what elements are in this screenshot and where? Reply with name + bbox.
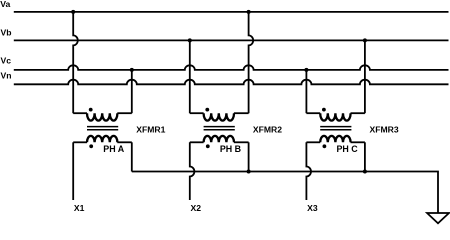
- junction dot neutral wire / XFMR3: [363, 170, 367, 174]
- XFMR2 primary right vertical (x=248.6): [249, 12, 254, 113]
- junction dot Vc / XFMR1: [130, 68, 134, 72]
- bus Vn (hops over 6 verticals): [14, 80, 449, 85]
- XFMR2 core: [204, 127, 235, 130]
- XFMR1 primary winding wire: [73, 112, 87, 114]
- svg-text:Vn: Vn: [1, 70, 12, 80]
- XFMR3 secondary coil: [320, 136, 350, 142]
- XFMR3 secondary winding wire: [306, 141, 320, 143]
- XFMR3 secondary polarity dot: [323, 144, 327, 148]
- XFMR1 secondary winding wire: [73, 141, 87, 143]
- XFMR1 primary coil: [87, 113, 117, 120]
- svg-text:X1: X1: [74, 203, 85, 213]
- XFMR1 primary right vertical (x=131.8): [131, 70, 133, 113]
- XFMR2 primary coil: [204, 113, 234, 120]
- svg-text:Va: Va: [0, 0, 10, 9]
- XFMR2 primary polarity dot: [205, 108, 209, 112]
- XFMR1 secondary left vertical to X1 terminal: [72, 142, 74, 200]
- svg-text:XFMR3: XFMR3: [370, 124, 399, 134]
- bus Vb: [14, 39, 449, 41]
- XFMR2 primary left vertical (from bus, x=189.8): [189, 40, 191, 113]
- svg-text:Vc: Vc: [1, 56, 12, 66]
- svg-text:Vb: Vb: [1, 27, 12, 37]
- XFMR3 secondary left vertical to X3 terminal: [306, 142, 311, 200]
- svg-text:XFMR2: XFMR2: [253, 124, 282, 134]
- XFMR1 secondary polarity dot: [89, 144, 93, 148]
- junction dot Va / XFMR2: [247, 10, 251, 14]
- junction dot neutral wire / XFMR2: [247, 170, 251, 174]
- XFMR3 primary right vertical (x=364.9): [364, 40, 366, 113]
- XFMR3 primary coil: [320, 113, 350, 120]
- XFMR2 primary winding wire: [190, 112, 204, 114]
- XFMR3 primary polarity dot: [322, 108, 326, 112]
- svg-text:PH A: PH A: [103, 144, 124, 154]
- ground symbol: [427, 213, 449, 223]
- svg-text:X2: X2: [191, 203, 202, 213]
- XFMR1 secondary coil: [87, 136, 117, 142]
- junction dot Vb / XFMR3: [363, 38, 367, 42]
- svg-text:X3: X3: [307, 203, 318, 213]
- XFMR3 primary left vertical (from bus, x=306.4): [305, 70, 307, 113]
- junction dot Va / XFMR1: [71, 10, 75, 14]
- XFMR1 core: [87, 127, 118, 130]
- XFMR2 secondary polarity dot: [206, 144, 210, 148]
- XFMR3 primary winding wire: [306, 112, 320, 114]
- XFMR3 core: [320, 127, 351, 130]
- XFMR2 secondary coil: [204, 136, 234, 142]
- bus Va: [14, 11, 449, 13]
- XFMR2 secondary winding wire: [190, 141, 204, 143]
- junction dot Vb / XFMR2: [188, 38, 192, 42]
- junction dot Vc / XFMR3: [304, 68, 308, 72]
- XFMR2 secondary left vertical to X2 terminal: [190, 142, 195, 200]
- XFMR1 primary left vertical (from bus, x=73.2): [73, 12, 78, 113]
- svg-text:PH C: PH C: [337, 144, 359, 154]
- XFMR1 secondary right vertical to neutral wire: [131, 142, 133, 171]
- svg-text:PH B: PH B: [220, 144, 241, 154]
- bottom neutral wire to ground: [132, 172, 438, 214]
- svg-text:XFMR1: XFMR1: [136, 124, 165, 134]
- bus Vc (hops over 4 verticals): [14, 65, 449, 70]
- XFMR1 primary polarity dot: [89, 108, 93, 112]
- XFMR2 secondary right vertical to neutral wire: [248, 142, 250, 171]
- XFMR3 secondary right vertical to neutral wire: [364, 142, 366, 171]
